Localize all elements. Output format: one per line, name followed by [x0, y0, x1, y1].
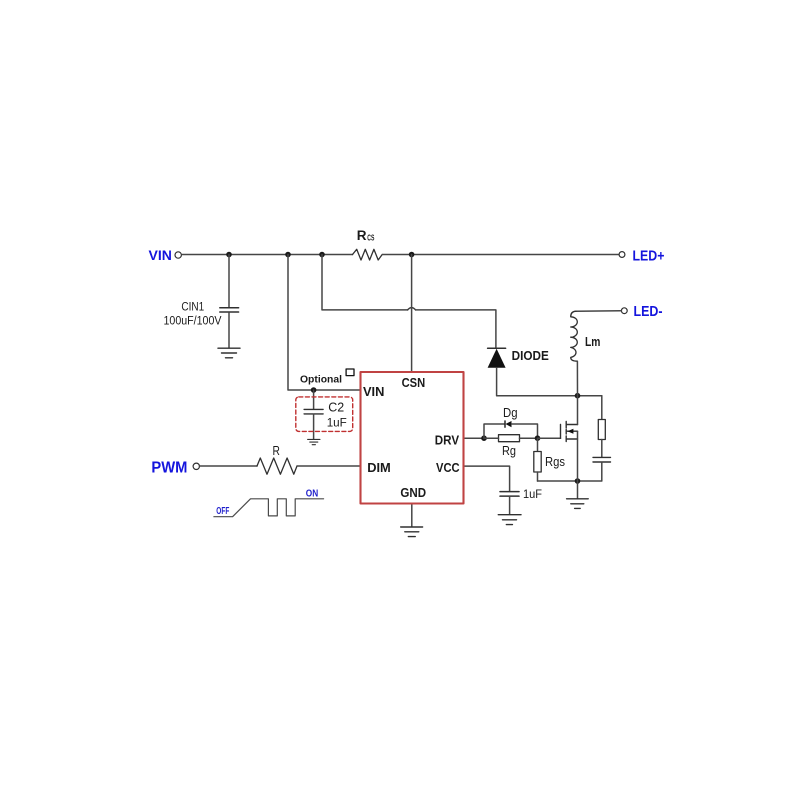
- node junction CIN1 tap: [226, 252, 232, 258]
- wire Rcs to LED+: [382, 254, 619, 256]
- wire CSN vertical: [411, 255, 413, 372]
- resistor Rg box: [499, 435, 520, 442]
- capacitor snubber: [593, 457, 611, 462]
- svg-text:CIN1: CIN1: [181, 301, 204, 313]
- wire DRV to node: [464, 437, 485, 439]
- waveform PWM: [214, 499, 324, 517]
- wire Lm bottom lead: [576, 361, 578, 396]
- svg-text:Optional: Optional: [300, 375, 342, 386]
- wire drain lead: [577, 396, 579, 425]
- wire vertical to VIN pin: [288, 255, 361, 391]
- ground C2: [308, 439, 320, 444]
- svg-text:100uF/100V: 100uF/100V: [164, 316, 222, 328]
- svg-text:DRV: DRV: [435, 433, 460, 448]
- diode Dg: [505, 421, 512, 427]
- svg-text:VCC: VCC: [436, 460, 460, 475]
- svg-text:Lm: Lm: [585, 334, 600, 349]
- svg-text:CSN: CSN: [402, 375, 426, 390]
- svg-text:ON: ON: [306, 488, 318, 499]
- svg-text:C2: C2: [328, 399, 344, 414]
- terminal PWM circle: [193, 463, 199, 469]
- wire source lead: [577, 431, 579, 481]
- ground IC GND: [401, 527, 423, 537]
- svg-text:VIN: VIN: [149, 247, 172, 263]
- resistor R: [257, 458, 297, 474]
- wire DRV node to Rg: [484, 437, 499, 439]
- node junction DRV: [481, 435, 487, 441]
- wire CIN1 top lead: [228, 255, 230, 308]
- terminal VIN circle: [175, 252, 181, 258]
- wire PWM to R: [199, 465, 257, 467]
- svg-text:1uF: 1uF: [327, 415, 347, 429]
- node junction gate: [535, 435, 541, 441]
- node junction CSN-line branch: [319, 252, 325, 258]
- wire diode line right: [416, 310, 496, 348]
- svg-text:R: R: [357, 228, 367, 243]
- svg-text:Rg: Rg: [502, 444, 516, 458]
- terminal LED+ circle: [619, 252, 625, 258]
- wire Rg to gate node: [520, 437, 538, 439]
- transistor Q1 MOSFET: [561, 422, 578, 442]
- wire VCC branch: [464, 466, 510, 491]
- svg-text:CS: CS: [367, 234, 375, 243]
- wire vertical branch to diode line: [322, 255, 408, 310]
- wire GND pin lead: [411, 504, 413, 527]
- svg-text:OFF: OFF: [216, 506, 229, 517]
- ground CIN1: [218, 348, 240, 358]
- capacitor CIN1: [220, 308, 239, 312]
- node junction Rcs right: [409, 252, 415, 258]
- optional checkbox square: [346, 369, 354, 376]
- wire gate node to gate: [538, 437, 561, 439]
- wire Rgs top lead: [537, 438, 539, 451]
- svg-text:1uF: 1uF: [523, 487, 542, 501]
- svg-text:DIM: DIM: [367, 460, 391, 475]
- dashed box C2 optional: [296, 397, 353, 432]
- node junction drain: [575, 393, 581, 399]
- wire LED- to Lm: [576, 310, 621, 313]
- wire C2 bottom lead: [313, 414, 315, 439]
- inductor Lm: [571, 311, 578, 361]
- svg-text:VIN: VIN: [363, 384, 384, 399]
- wire CIN1 bottom lead: [228, 313, 230, 348]
- ground CVCC: [498, 515, 521, 525]
- wire R to DIM pin: [297, 465, 361, 467]
- ground MOSFET source: [567, 499, 589, 509]
- svg-text:GND: GND: [400, 485, 426, 500]
- wire Rgs bottom lead: [537, 472, 539, 481]
- node junction source-ground: [575, 478, 581, 484]
- svg-text:PWM: PWM: [151, 460, 187, 477]
- resistor Rcs: [353, 249, 383, 260]
- wire C2 top lead: [313, 390, 315, 409]
- svg-text:LED-: LED-: [634, 304, 663, 320]
- wire snubber bottom: [538, 462, 602, 481]
- capacitor CVCC 1uF: [500, 492, 519, 497]
- svg-text:R: R: [273, 443, 280, 458]
- terminal LED- circle: [621, 308, 627, 314]
- wire VIN to Rcs: [182, 254, 352, 256]
- svg-text:DIODE: DIODE: [512, 348, 549, 363]
- wire Dg branch up-left: [484, 424, 504, 438]
- resistor Rgs box: [534, 452, 541, 473]
- resistor snubber box: [598, 420, 605, 440]
- node junction C2 tap: [311, 387, 317, 393]
- wire Dg branch right-down: [512, 424, 538, 438]
- svg-text:Dg: Dg: [503, 406, 518, 420]
- capacitor C2: [304, 409, 323, 414]
- svg-text:Rgs: Rgs: [545, 454, 565, 469]
- wire diode to drain node: [497, 368, 602, 396]
- wire snubber mid: [601, 440, 603, 458]
- wire CVCC bottom lead: [509, 497, 511, 515]
- node junction VIN-pin branch: [285, 252, 291, 258]
- IC U1 box: [361, 372, 464, 504]
- svg-text:LED+: LED+: [633, 248, 665, 264]
- diode DIODE: [488, 348, 506, 368]
- wire hop over CSN line: [408, 308, 416, 310]
- wire source to ground: [577, 481, 579, 498]
- wire snubber top lead: [601, 396, 603, 420]
